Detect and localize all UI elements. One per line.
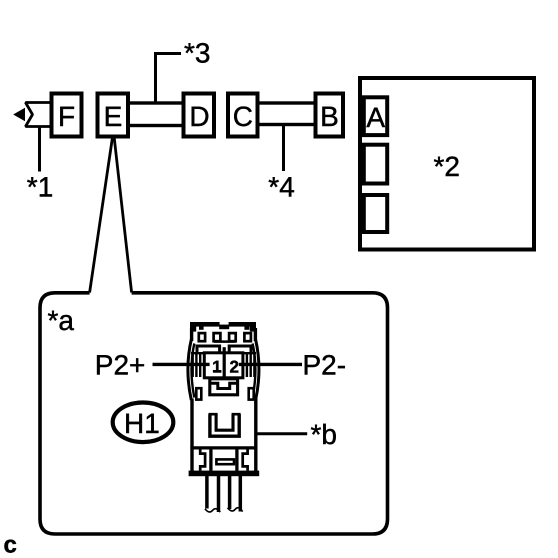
base bottom bar [189,471,260,477]
cap slot 1 [199,333,205,341]
wire 1 break squiggle [205,509,220,512]
base cell wall right [235,450,238,471]
socket shelf left [197,346,220,353]
cap slot 2 [214,333,221,341]
base center slot [216,459,234,464]
leader line *3 [156,54,182,104]
callout pointer left leg [90,139,113,293]
connector cap right side [254,328,257,341]
callout rounded box *a [40,293,388,534]
callout pointer right leg [114,139,131,293]
cap slot 3 [229,333,236,341]
leader line P2- [239,363,302,366]
base cell wall left [209,450,212,471]
connector box D [184,94,215,137]
svg-text:P2-: P2- [303,349,347,380]
svg-text:2: 2 [229,357,238,376]
barrel right outer arc [256,340,259,401]
leader line P2+ [153,363,210,366]
svg-text:*2: *2 [434,151,460,182]
terminal block [204,353,243,378]
terminal hatch left [191,353,205,377]
svg-text:P2+: P2+ [95,350,146,381]
base separator [190,446,257,449]
svg-text:H1: H1 [124,408,160,439]
latch outer U [210,414,239,436]
svg-text:E: E [104,101,123,132]
connector H1 top cap bar [190,322,256,332]
svg-text:*4: *4 [268,171,294,202]
barrel left inner arc [192,344,195,398]
side slot left [196,388,201,399]
arrowhead [13,108,25,121]
cap slot 4 [244,333,251,341]
svg-text:*3: *3 [184,38,210,69]
cap slot connecting line [214,340,236,343]
svg-text:B: B [320,101,339,132]
barrel left outer arc [188,340,191,401]
svg-text:C: C [233,101,253,132]
cup inner step [210,383,238,388]
svg-text:F: F [58,101,75,132]
wire band C to B [255,103,317,125]
wire 2 break squiggle [228,508,243,512]
wire 1 left edge [205,476,209,509]
connector box E [98,94,129,137]
svg-text:*a: *a [48,305,75,336]
connector box F [52,94,82,137]
wire band E to D [126,103,186,126]
wire 2 right edge [239,476,243,512]
connector box A [364,97,387,135]
leader line *1 [38,127,41,172]
empty connector box 1 [364,145,387,184]
svg-text:*1: *1 [27,172,53,203]
body left side [190,399,193,472]
svg-text:1: 1 [212,357,221,376]
leader line *b [258,432,308,435]
empty connector box 2 [364,195,387,232]
body right side [254,399,257,472]
leader line *4 [282,125,285,172]
latch inner U [216,414,233,430]
socket shelf right [229,346,251,353]
side slot right [249,388,254,399]
base clip left [200,450,205,471]
terminal divider [223,347,226,377]
svg-text:c: c [4,532,17,558]
terminal hatch right [243,353,257,377]
latch arm caps [209,413,241,416]
barrel right inner arc [253,344,256,398]
connector cap left side [190,328,193,341]
wire 1 right edge [217,476,221,512]
wire arrow band to F [26,103,52,127]
connector box B [316,94,344,137]
svg-text:*b: *b [311,419,337,450]
svg-text:A: A [366,102,385,133]
svg-text:D: D [189,101,209,132]
connector box C [228,94,258,137]
cup below terminals [210,379,238,395]
wire 2 left edge [228,476,232,509]
bulb holder ellipse H1 [113,403,174,443]
ECU box *2 [360,78,534,250]
base clip right [243,450,248,471]
